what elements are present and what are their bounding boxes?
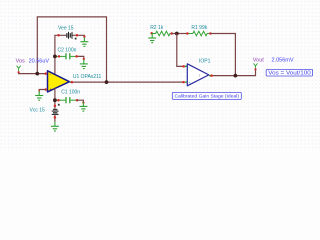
wire Vos pin to U1 inverting input bbox=[19, 72, 46, 74]
capacitor C1 100n bbox=[55, 97, 77, 103]
battery V1 Vcc bbox=[52, 104, 60, 115]
junction C2 tap on Vee feed bbox=[53, 55, 57, 59]
svg-text:I: I bbox=[199, 73, 200, 78]
svg-text:Vos: Vos bbox=[16, 58, 25, 64]
svg-text:U1 OPAx211: U1 OPAx211 bbox=[73, 74, 102, 80]
junction on inverting input wire bbox=[35, 72, 39, 76]
terminal dots battery Vee bbox=[57, 34, 60, 37]
junction C1 tap on Vcc feed bbox=[53, 98, 57, 102]
svg-text:IOP1: IOP1 bbox=[199, 59, 211, 65]
IOP1 output wire bbox=[209, 68, 256, 75]
svg-text:Vout: Vout bbox=[253, 58, 264, 64]
wire R2 to junction bbox=[172, 33, 188, 35]
junction R2/R1 bbox=[175, 32, 179, 36]
svg-text:R1 99k: R1 99k bbox=[191, 25, 207, 31]
wire battery to ground corner bbox=[73, 35, 85, 37]
svg-text:C1 100n: C1 100n bbox=[61, 89, 80, 95]
U1 output wire to IOP1 bbox=[69, 81, 183, 83]
resistor R1 99k bbox=[187, 31, 210, 36]
text box Vos = Vout/100 bbox=[266, 69, 312, 76]
U1 input terminal dots bbox=[44, 72, 47, 75]
wire feedback loop U1 output to inverting input bbox=[37, 17, 106, 82]
wire Vee rail corner to battery bbox=[55, 35, 66, 74]
capacitor C2 100n bbox=[55, 53, 77, 59]
svg-text:+: + bbox=[49, 87, 52, 92]
svg-text:Vee 15: Vee 15 bbox=[58, 25, 74, 31]
svg-text:C2 100n: C2 100n bbox=[58, 47, 77, 53]
wire and ground at U1 + input bbox=[39, 90, 45, 92]
wire Vcc battery to ground bbox=[54, 115, 56, 122]
text box Calibrated Gain Stage (Ideal) bbox=[172, 92, 241, 99]
wire C2 to ground bbox=[77, 56, 84, 59]
junction output / R1 feedback bbox=[234, 74, 238, 78]
ground at C1 bbox=[79, 102, 87, 111]
svg-text:2.056mV: 2.056mV bbox=[272, 58, 294, 64]
battery V2 Vee bbox=[66, 32, 76, 40]
svg-text:Calibrated Gain Stage (Ideal): Calibrated Gain Stage (Ideal) bbox=[175, 94, 240, 99]
ground at C2 bbox=[80, 59, 88, 68]
svg-text:R2 1k: R2 1k bbox=[150, 25, 164, 31]
op-amp IOP1 ideal bbox=[187, 64, 209, 86]
junction U1 output / feedback bbox=[105, 80, 109, 84]
wire junction down to IOP1 inverting input bbox=[177, 34, 187, 67]
ground at Vee battery bbox=[80, 37, 88, 46]
ground at R2 bbox=[150, 32, 153, 35]
voltage pin Vout bbox=[254, 63, 258, 69]
svg-text:20.56uV: 20.56uV bbox=[29, 58, 50, 64]
svg-text:Vcc 15: Vcc 15 bbox=[30, 107, 46, 113]
wire C1 to ground bbox=[77, 100, 83, 102]
wire U1 Vcc pin down bbox=[54, 88, 56, 109]
voltage pin Vos bbox=[17, 66, 21, 72]
wire R1 to output node bbox=[210, 34, 235, 76]
svg-text:Vos = Vout/100: Vos = Vout/100 bbox=[268, 71, 311, 77]
ground at Vcc battery bbox=[51, 122, 59, 131]
op-amp U1 OPAx211 bbox=[48, 71, 70, 92]
resistor R2 1k bbox=[152, 31, 172, 36]
